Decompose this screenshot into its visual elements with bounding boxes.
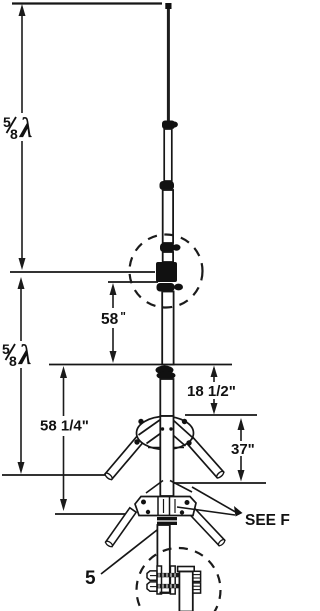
dimension line 5/8-wave lower	[18, 277, 25, 474]
top reference line	[12, 2, 162, 4]
horizontal reference line at radial tips	[2, 474, 108, 476]
clamp C	[160, 243, 181, 252]
bracket plate left	[157, 566, 162, 594]
clamp B	[160, 181, 175, 190]
tube third section	[163, 190, 173, 243]
radial right upper	[187, 438, 225, 479]
support pipe cap	[178, 567, 195, 572]
tube below coupling	[162, 292, 173, 365]
svg-text:58 1/4": 58 1/4"	[40, 418, 89, 435]
radial left lower	[105, 508, 136, 548]
radial hub 1	[137, 417, 194, 450]
dashed circle around coupling	[130, 235, 203, 308]
radial hub 2	[135, 497, 196, 516]
svg-text:λ: λ	[19, 113, 32, 144]
callout lines to SEE F note	[192, 487, 239, 514]
radial left upper	[104, 434, 145, 480]
svg-text:37": 37"	[231, 441, 255, 458]
dimension line 58-1/4 inch	[60, 366, 67, 511]
nut upper	[193, 571, 201, 581]
mast clamp item 5	[157, 517, 177, 525]
tube above coupling	[163, 252, 173, 262]
bracket plate right	[170, 566, 175, 594]
tube above hub1	[160, 379, 173, 416]
clamp D	[157, 283, 184, 292]
dimension line 58 inch	[110, 283, 117, 363]
hub1 bolts	[134, 419, 191, 446]
horizontal reference line at first clamp level	[49, 364, 232, 366]
whip tip cap	[165, 3, 171, 9]
lower mast tube	[157, 525, 169, 593]
callout arrowhead	[234, 506, 243, 517]
clamp E	[156, 366, 176, 380]
horizontal reference line at feed level	[55, 513, 129, 515]
horizontal reference line at coupling	[10, 271, 155, 273]
radial right lower	[186, 505, 226, 546]
mast bottom edge	[160, 592, 172, 594]
clamp A	[162, 121, 178, 130]
hub1 right socket	[166, 420, 193, 447]
mast through hubs	[160, 416, 173, 496]
tent brace left	[146, 481, 163, 494]
label 5/8 lambda upper	[3, 113, 32, 144]
short reference line below coupling	[108, 281, 158, 283]
tent brace right	[170, 481, 192, 493]
whip second section	[164, 129, 172, 181]
dimension line 37 inch	[238, 418, 245, 482]
horizontal reference line at hub level	[185, 414, 257, 416]
horizontal reference line at lower radial level	[171, 482, 266, 484]
pointer line for item 5	[101, 530, 157, 574]
hub1 left socket	[139, 420, 169, 444]
dimension line 18-1/2 inch	[211, 366, 218, 415]
dashed circle around mount	[137, 548, 221, 611]
svg-text:λ: λ	[18, 340, 31, 371]
clamp bolt lower	[147, 582, 180, 591]
clamp bolt upper	[147, 571, 180, 580]
dimension line 5/8-wave upper	[19, 4, 26, 270]
nut lower	[193, 583, 201, 593]
whip top section	[167, 9, 170, 121]
support pipe	[179, 572, 192, 611]
svg-text:18 1/2": 18 1/2"	[187, 383, 236, 400]
svg-text:SEE F: SEE F	[245, 512, 290, 529]
label 5/8 lambda lower	[2, 340, 31, 371]
matching coupling block	[156, 262, 177, 282]
svg-text:5: 5	[85, 568, 96, 589]
svg-text:8: 8	[9, 353, 17, 369]
svg-text:8: 8	[10, 126, 18, 142]
